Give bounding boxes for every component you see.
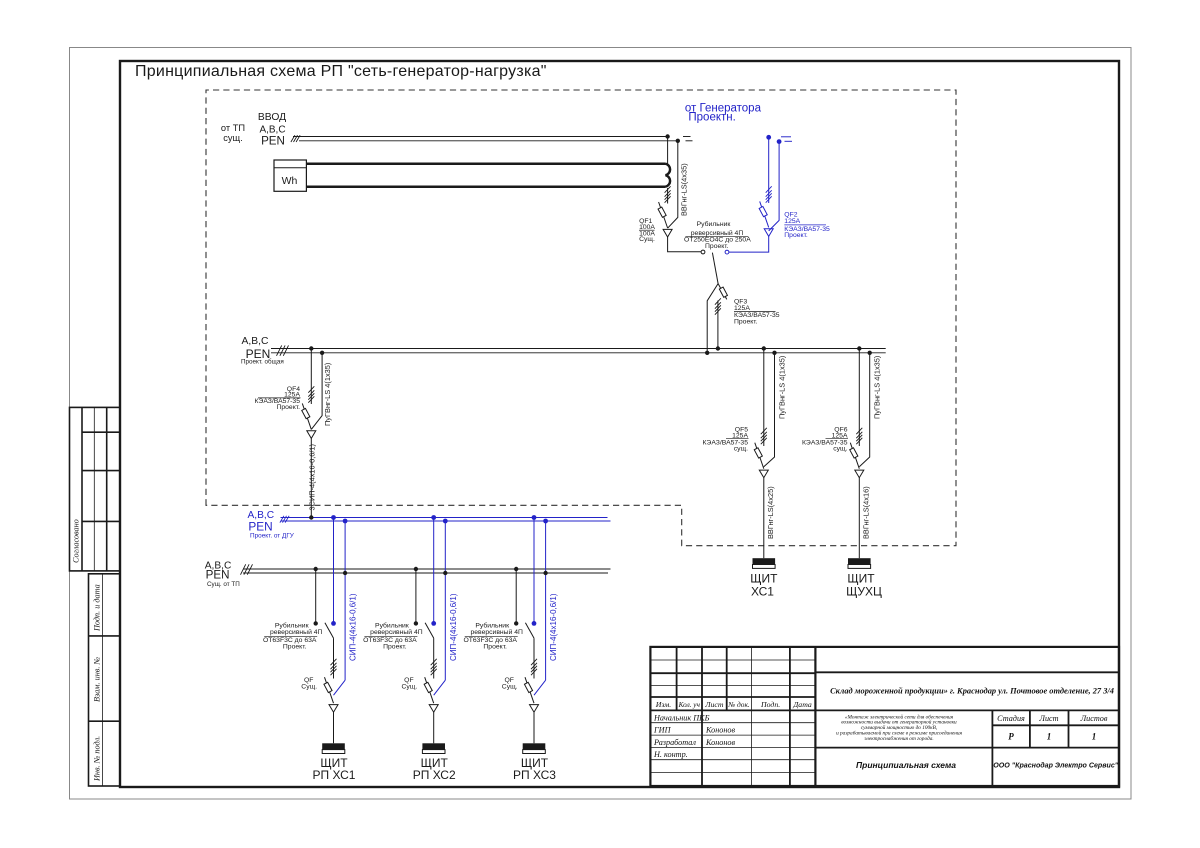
svg-text:Сущ.: Сущ. xyxy=(301,684,317,691)
svg-text:1: 1 xyxy=(1047,732,1052,742)
svg-text:РП ХС1: РП ХС1 xyxy=(313,768,356,782)
svg-text:ВВГнг-LS(4x16): ВВГнг-LS(4x16) xyxy=(862,486,871,539)
svg-text:Лист: Лист xyxy=(1038,714,1058,723)
svg-text:A,B,C: A,B,C xyxy=(242,336,269,347)
svg-text:РП ХС2: РП ХС2 xyxy=(413,768,456,782)
svg-text:ЩИТ: ЩИТ xyxy=(750,571,778,585)
svg-text:Н. контр.: Н. контр. xyxy=(653,750,688,759)
svg-text:Склад мороженной продукции» г.: Склад мороженной продукции» г. Краснодар… xyxy=(830,686,1114,695)
svg-text:Дата: Дата xyxy=(792,700,812,709)
svg-text:СИП-4(4х16-0,6/1): СИП-4(4х16-0,6/1) xyxy=(449,593,458,661)
svg-text:ХС1: ХС1 xyxy=(751,585,774,599)
svg-text:Листов: Листов xyxy=(1080,714,1108,723)
svg-text:PEN: PEN xyxy=(248,520,272,534)
svg-text:реверсивный 4П: реверсивный 4П xyxy=(270,628,323,636)
svg-text:электроснабжения от города.: электроснабжения от города. xyxy=(864,735,933,742)
svg-text:Рубильник: Рубильник xyxy=(475,621,509,629)
svg-text:ПуГВнг-LS 4(1х35): ПуГВнг-LS 4(1х35) xyxy=(778,356,787,419)
svg-text:PEN: PEN xyxy=(261,135,285,148)
svg-text:Кононов: Кононов xyxy=(705,738,736,747)
svg-text:Рубильник: Рубильник xyxy=(375,621,409,629)
svg-text:Взам. инв. №: Взам. инв. № xyxy=(93,657,102,702)
svg-text:№ док.: № док. xyxy=(727,700,750,709)
svg-text:Инв. № подл.: Инв. № подл. xyxy=(93,736,102,782)
svg-text:Подп. и дата: Подп. и дата xyxy=(93,584,102,632)
svg-text:Р: Р xyxy=(1008,732,1014,742)
svg-text:125А: 125А xyxy=(784,218,800,225)
svg-text:реверсивный 4П: реверсивный 4П xyxy=(470,628,523,636)
svg-text:Сущ.: Сущ. xyxy=(639,236,655,243)
svg-text:реверсивный 4П: реверсивный 4П xyxy=(370,628,423,636)
svg-text:Принципиальная схема: Принципиальная схема xyxy=(856,760,956,770)
svg-text:Начальник ПКБ: Начальник ПКБ xyxy=(653,713,710,722)
svg-text:ЩУХЦ: ЩУХЦ xyxy=(846,585,882,599)
svg-text:PEN: PEN xyxy=(206,568,230,581)
svg-text:ПуГВнг-LS 4(1х35): ПуГВнг-LS 4(1х35) xyxy=(873,356,882,419)
svg-text:Проект.: Проект. xyxy=(734,318,758,325)
svg-text:Кононов: Кононов xyxy=(705,726,736,735)
svg-text:1: 1 xyxy=(1092,732,1097,742)
svg-text:Рубильник: Рубильник xyxy=(697,220,731,228)
svg-text:от ТП: от ТП xyxy=(221,123,245,133)
svg-text:Стадия: Стадия xyxy=(997,714,1025,723)
svg-text:Согласовано: Согласовано xyxy=(72,519,81,563)
svg-text:ВВГнг-LS(4x25): ВВГнг-LS(4x25) xyxy=(766,486,775,539)
svg-text:Проект.: Проект. xyxy=(784,232,808,239)
svg-text:ООО "Краснодар Электро Сервис": ООО "Краснодар Электро Сервис" xyxy=(993,762,1119,770)
svg-text:Проектн.: Проектн. xyxy=(688,112,735,124)
svg-text:Рубильник: Рубильник xyxy=(275,621,309,629)
svg-text:сущ.: сущ. xyxy=(223,133,243,143)
svg-text:Проект. общая: Проект. общая xyxy=(241,357,284,365)
svg-text:Проект.: Проект. xyxy=(283,644,307,651)
svg-text:ЩИТ: ЩИТ xyxy=(847,571,875,585)
svg-text:Проект.: Проект. xyxy=(483,644,507,651)
svg-text:ГИП: ГИП xyxy=(653,726,672,735)
svg-text:СИП-4(4х16-0,6/1): СИП-4(4х16-0,6/1) xyxy=(349,593,358,661)
svg-text:Проект. от ДГУ: Проект. от ДГУ xyxy=(250,533,295,540)
svg-text:ПуГВнг-LS 4(1х35): ПуГВнг-LS 4(1х35) xyxy=(323,363,332,426)
svg-text:СИП-4(4х16-0,6/1): СИП-4(4х16-0,6/1) xyxy=(549,593,558,661)
svg-text:Проект.: Проект. xyxy=(383,644,407,651)
svg-text:Принципиальная схема РП "сеть-: Принципиальная схема РП "сеть-генератор-… xyxy=(135,63,547,80)
svg-text:Wh: Wh xyxy=(282,175,298,187)
svg-text:Разработал: Разработал xyxy=(653,738,696,747)
svg-text:Проект.: Проект. xyxy=(276,404,300,411)
svg-text:Кол. уч: Кол. уч xyxy=(678,701,701,709)
svg-text:РП ХС3: РП ХС3 xyxy=(513,768,556,782)
svg-text:Изм.: Изм. xyxy=(655,700,671,709)
svg-text:ВВГнг-LS(4x35): ВВГнг-LS(4x35) xyxy=(679,163,688,216)
svg-text:3СИП-4(4х16-0,6/1): 3СИП-4(4х16-0,6/1) xyxy=(308,444,317,511)
svg-text:Проект.: Проект. xyxy=(705,243,729,250)
svg-text:Подп.: Подп. xyxy=(760,700,780,709)
svg-text:сущ.: сущ. xyxy=(734,446,748,453)
svg-text:Сущ.: Сущ. xyxy=(502,684,518,691)
svg-text:Лист: Лист xyxy=(704,700,724,709)
svg-text:Сущ. от ТП: Сущ. от ТП xyxy=(207,581,240,588)
svg-text:сущ.: сущ. xyxy=(833,446,847,453)
svg-text:Сущ.: Сущ. xyxy=(402,684,418,691)
svg-text:ВВОД: ВВОД xyxy=(258,112,286,123)
